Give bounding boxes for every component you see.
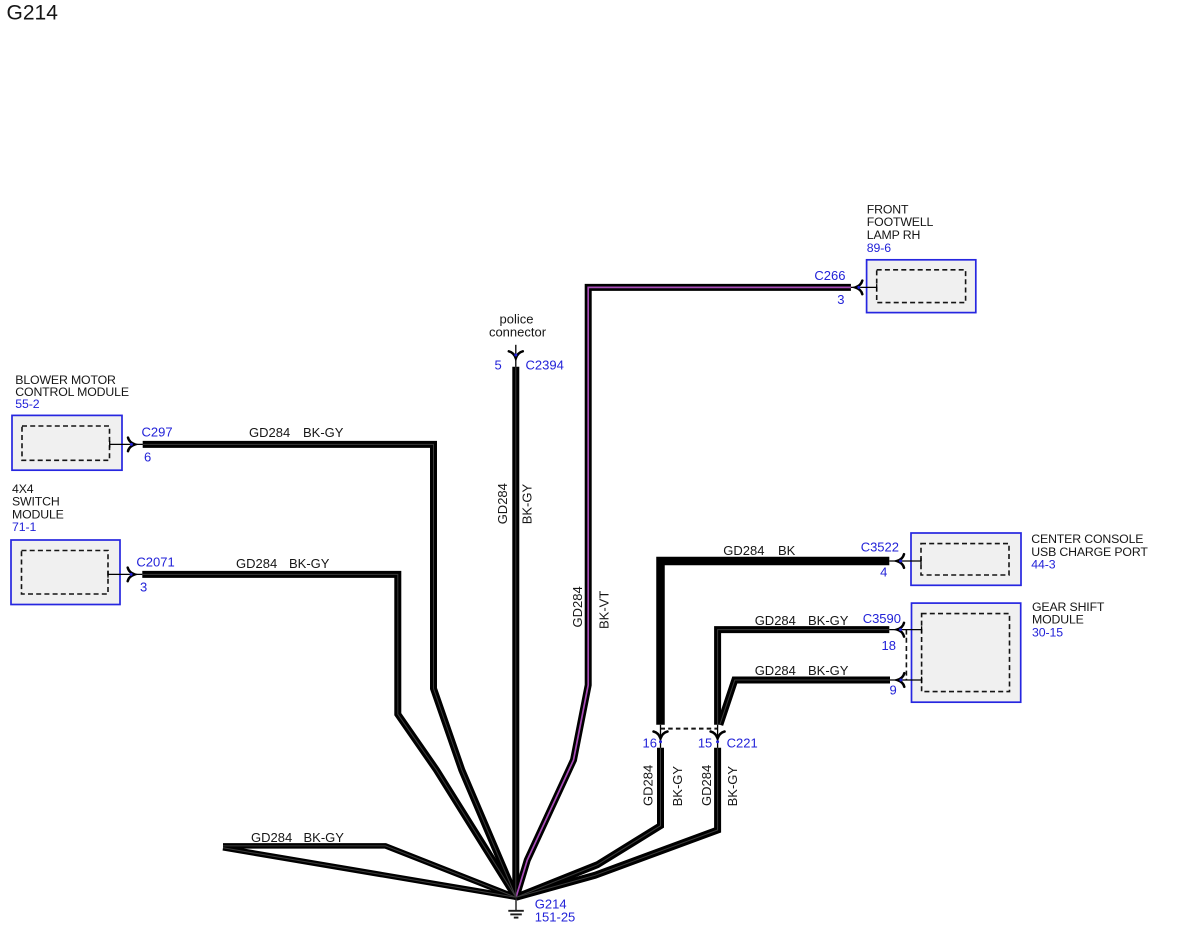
svg-text:9: 9 [889,683,896,698]
svg-text:18: 18 [882,638,896,653]
svg-text:GD284: GD284 [251,830,292,845]
svg-text:GD284: GD284 [236,556,277,571]
svg-text:GD284: GD284 [640,765,655,806]
svg-text:BK: BK [778,543,796,558]
svg-text:LAMP RH: LAMP RH [867,228,920,242]
svg-text:connector: connector [489,325,547,340]
svg-text:151-25: 151-25 [535,909,575,924]
svg-text:BK-VT: BK-VT [597,591,612,629]
svg-text:BK-GY: BK-GY [808,663,849,678]
svg-text:GD284: GD284 [755,613,796,628]
svg-text:3: 3 [140,579,147,594]
svg-text:44-3: 44-3 [1031,558,1055,572]
svg-text:71-1: 71-1 [12,520,36,534]
svg-text:GD284: GD284 [699,765,714,806]
svg-text:C221: C221 [727,736,758,751]
svg-text:G214: G214 [7,2,59,25]
svg-text:BK-GY: BK-GY [304,830,345,845]
svg-text:3: 3 [837,292,844,307]
svg-text:89-6: 89-6 [867,241,891,255]
svg-text:C3590: C3590 [863,611,901,626]
svg-text:16: 16 [643,736,657,751]
svg-text:BK-GY: BK-GY [289,556,330,571]
svg-text:GD284: GD284 [249,425,290,440]
svg-text:C2394: C2394 [526,358,564,373]
svg-text:15: 15 [698,736,712,751]
svg-text:BK-GY: BK-GY [808,613,849,628]
svg-text:GD284: GD284 [755,663,796,678]
svg-text:C3522: C3522 [861,540,899,555]
svg-text:C266: C266 [814,268,845,283]
svg-text:30-15: 30-15 [1032,626,1063,640]
svg-text:BK-GY: BK-GY [303,425,344,440]
svg-text:6: 6 [144,450,151,465]
svg-text:MODULE: MODULE [1032,613,1084,627]
svg-text:4: 4 [880,564,887,579]
svg-text:BK-GY: BK-GY [519,484,534,525]
svg-text:GD284: GD284 [723,543,764,558]
svg-text:C2071: C2071 [136,554,174,569]
svg-text:BK-GY: BK-GY [670,766,685,807]
svg-text:GD284: GD284 [495,483,510,524]
svg-text:5: 5 [494,358,501,373]
svg-text:55-2: 55-2 [15,397,39,411]
svg-text:BK-GY: BK-GY [725,766,740,807]
svg-text:C297: C297 [142,424,173,439]
svg-text:GD284: GD284 [570,586,585,627]
